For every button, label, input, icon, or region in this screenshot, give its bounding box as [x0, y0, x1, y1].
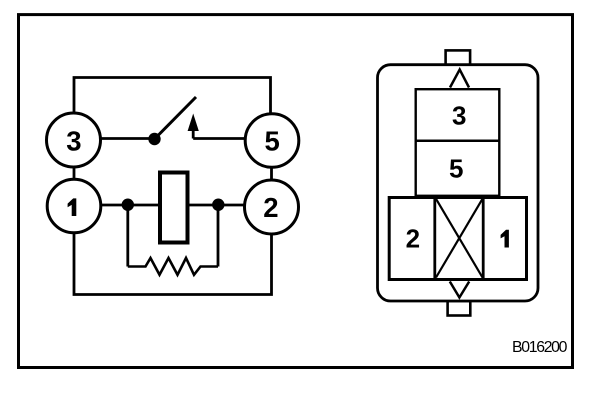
svg-text:5: 5	[449, 153, 463, 183]
svg-text:2: 2	[263, 192, 278, 223]
svg-text:2: 2	[406, 223, 420, 253]
svg-text:B016200: B016200	[512, 339, 568, 356]
svg-text:5: 5	[265, 126, 280, 157]
svg-text:3: 3	[452, 100, 466, 130]
svg-text:3: 3	[66, 126, 81, 157]
